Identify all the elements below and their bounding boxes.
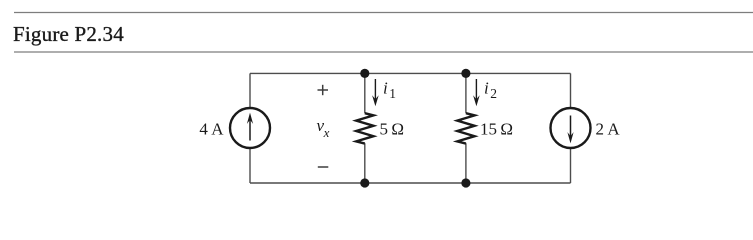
bottom rule	[14, 51, 753, 53]
wire: 5-ohm branch	[364, 73, 366, 183]
label plus polarity	[318, 85, 329, 95]
node dot bottom of 15-ohm branch	[461, 178, 470, 187]
wire: top horizontal	[250, 72, 571, 74]
svg-text:5 Ω: 5 Ω	[380, 119, 405, 138]
svg-text:1: 1	[389, 86, 396, 101]
svg-text:i: i	[484, 79, 489, 98]
current arrow i1	[372, 79, 379, 106]
svg-text:4 A: 4 A	[199, 119, 224, 138]
node dot bottom of 5-ohm branch	[360, 178, 369, 187]
svg-text:x: x	[323, 125, 330, 140]
current source I2 (2 A)	[551, 108, 591, 148]
svg-text:2 A: 2 A	[596, 119, 621, 138]
current arrow i2	[473, 79, 480, 106]
current source I1 (4 A)	[230, 108, 270, 148]
svg-text:15 Ω: 15 Ω	[480, 119, 513, 138]
svg-text:Figure P2.34: Figure P2.34	[13, 22, 124, 46]
node dot top of 5-ohm branch	[360, 69, 369, 78]
svg-text:i: i	[383, 79, 388, 98]
svg-text:2: 2	[490, 86, 497, 101]
node dot top of 15-ohm branch	[461, 69, 470, 78]
top rule	[14, 12, 753, 14]
label minus polarity	[318, 166, 329, 168]
wire: bottom horizontal	[250, 182, 571, 184]
resistor R1 5 ohm	[356, 113, 373, 143]
wire: right vertical	[570, 73, 572, 183]
wire: left vertical	[249, 73, 251, 183]
wire: 15-ohm branch	[465, 73, 467, 183]
resistor R2 15 ohm	[457, 113, 474, 143]
